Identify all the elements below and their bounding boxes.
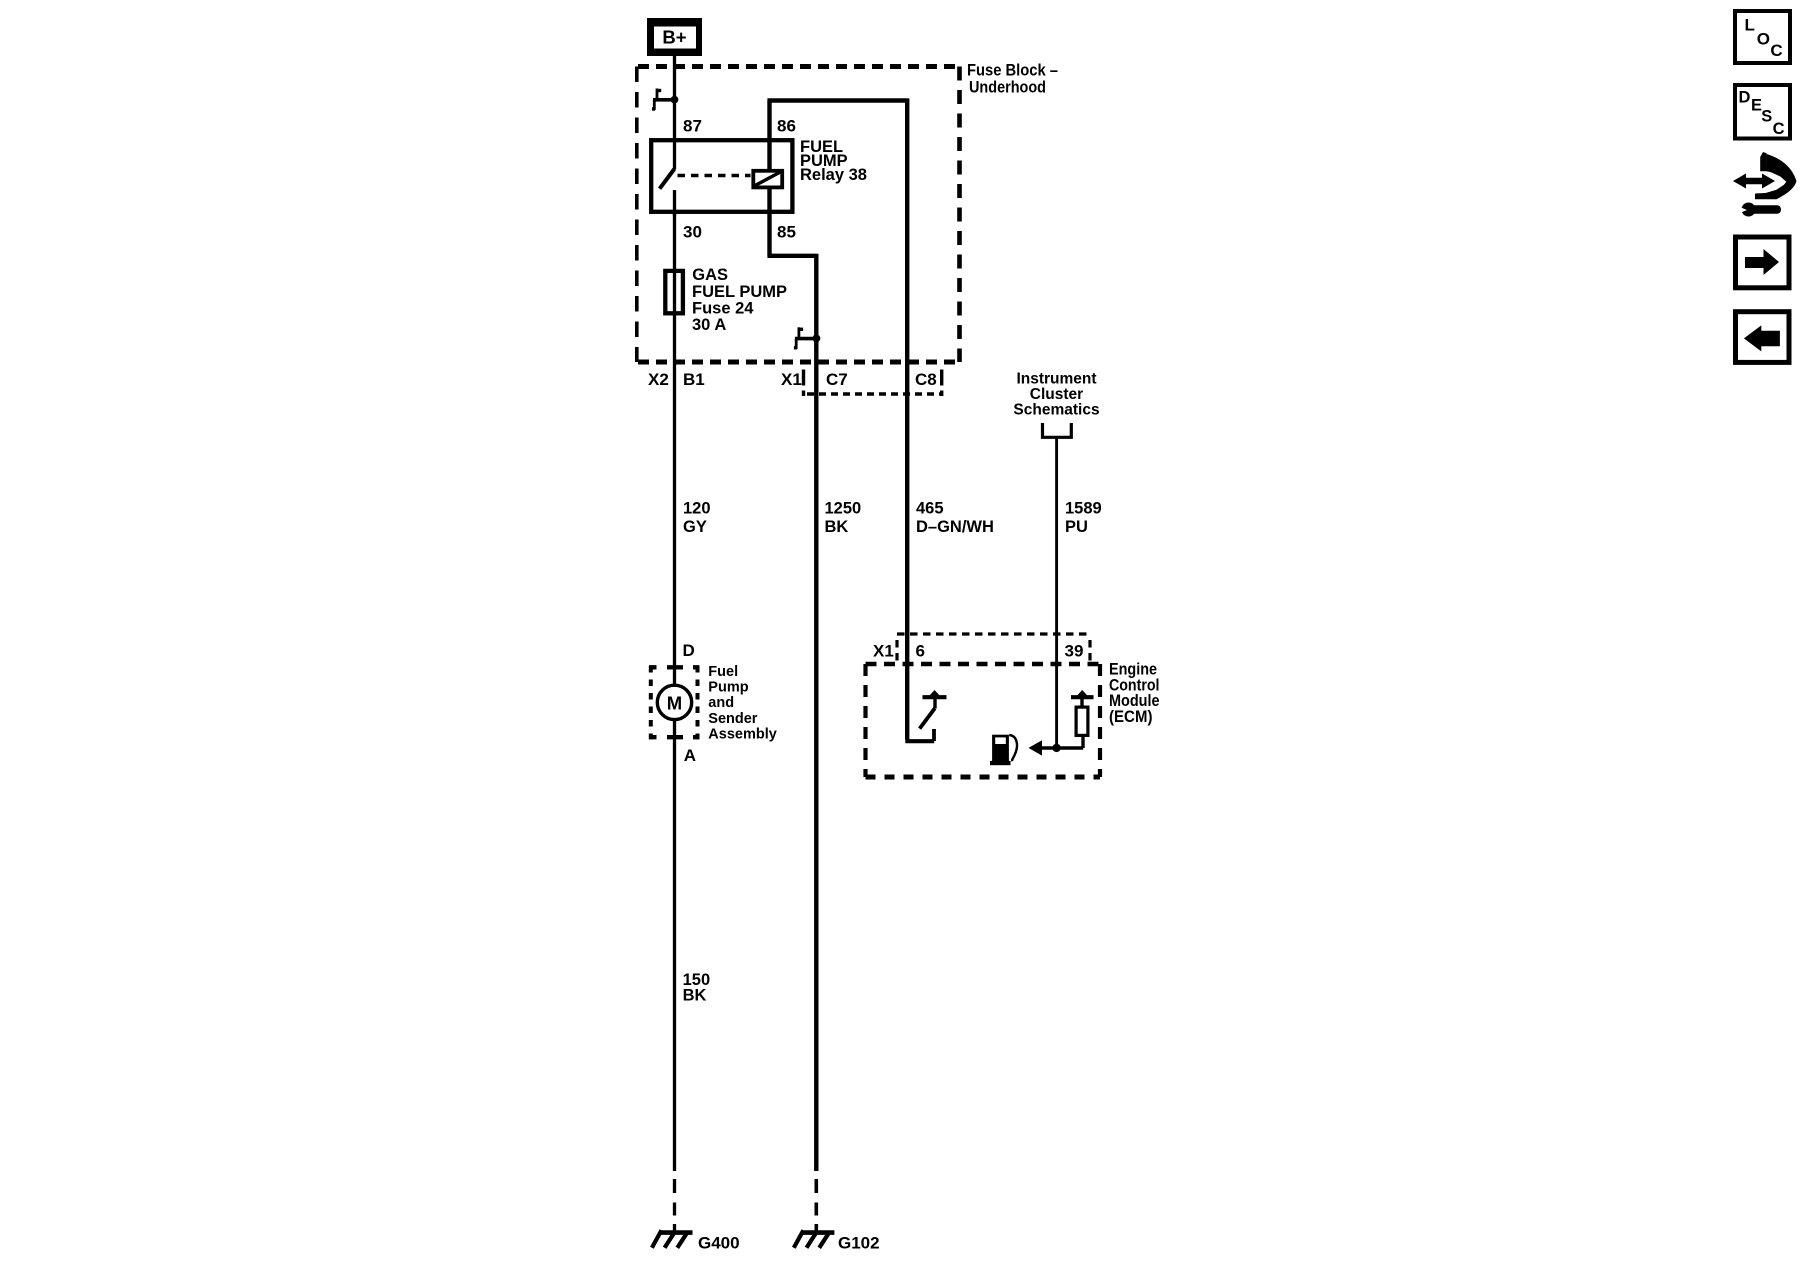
svg-text:BK: BK (683, 987, 707, 1005)
svg-text:FUEL PUMP: FUEL PUMP (692, 283, 787, 301)
svg-text:M: M (667, 693, 682, 714)
svg-text:and: and (708, 695, 734, 711)
svg-text:L: L (1745, 16, 1755, 35)
svg-text:30 A: 30 A (692, 316, 726, 334)
svg-text:X1: X1 (781, 370, 802, 389)
svg-text:C7: C7 (826, 370, 848, 389)
svg-text:G400: G400 (698, 1234, 740, 1253)
svg-text:6: 6 (916, 642, 925, 661)
svg-text:Fuse 24: Fuse 24 (692, 300, 754, 318)
svg-text:Schematics: Schematics (1013, 402, 1099, 419)
svg-text:GAS: GAS (692, 266, 728, 284)
svg-text:B+: B+ (662, 27, 686, 48)
svg-text:Relay 38: Relay 38 (800, 166, 867, 184)
svg-text:86: 86 (777, 116, 796, 135)
svg-text:85: 85 (777, 223, 796, 242)
svg-text:D: D (1739, 88, 1751, 106)
svg-text:(ECM): (ECM) (1109, 708, 1153, 726)
svg-text:120: 120 (683, 500, 711, 518)
svg-text:1250: 1250 (825, 500, 862, 518)
svg-text:D–GN/WH: D–GN/WH (916, 518, 994, 536)
svg-text:C8: C8 (915, 370, 937, 389)
svg-text:Underhood: Underhood (969, 78, 1046, 97)
svg-text:Fuel: Fuel (708, 664, 738, 680)
svg-text:465: 465 (916, 500, 944, 518)
svg-text:B1: B1 (683, 370, 705, 389)
svg-text:Instrument: Instrument (1016, 370, 1096, 387)
svg-text:C: C (1773, 120, 1785, 138)
svg-text:Cluster: Cluster (1030, 386, 1083, 403)
svg-text:O: O (1757, 29, 1770, 48)
svg-text:C: C (1770, 41, 1782, 60)
svg-text:30: 30 (683, 223, 702, 242)
svg-text:1589: 1589 (1065, 500, 1102, 518)
svg-text:Assembly: Assembly (708, 727, 777, 743)
svg-text:X2: X2 (648, 370, 669, 389)
svg-text:Sender: Sender (708, 711, 758, 727)
svg-text:A: A (684, 746, 696, 765)
svg-text:87: 87 (683, 116, 702, 135)
svg-text:GY: GY (683, 518, 707, 536)
svg-text:G102: G102 (838, 1234, 880, 1253)
svg-text:X1: X1 (873, 642, 894, 661)
svg-text:Pump: Pump (708, 680, 748, 696)
svg-text:S: S (1761, 107, 1772, 125)
svg-text:39: 39 (1065, 642, 1084, 661)
svg-text:D: D (683, 641, 695, 660)
svg-text:PU: PU (1065, 518, 1088, 536)
svg-text:BK: BK (825, 518, 849, 536)
